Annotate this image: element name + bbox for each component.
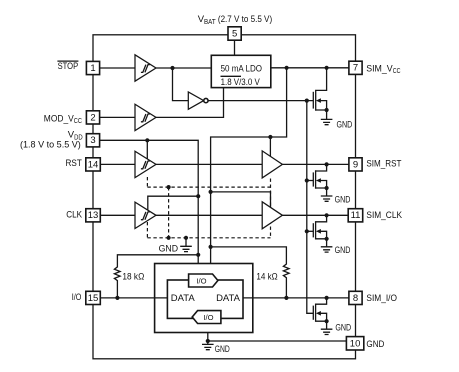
node VDD rail to CLK buffer supply (196, 194, 200, 198)
level shifter dashed boundary bottom (147, 237, 270, 239)
svg-text:14 kΩ: 14 kΩ (256, 271, 278, 281)
pin 1 (86, 61, 99, 74)
svg-text:I/O: I/O (196, 276, 206, 285)
pin 14 (86, 158, 101, 171)
svg-text:GND: GND (335, 195, 351, 205)
pin 11 (348, 209, 363, 222)
level shifter dashed divider (168, 187, 170, 238)
pin 5 (228, 27, 241, 40)
op-amp output buffer SIM_RST (262, 151, 282, 178)
pin 10 (346, 337, 363, 350)
wire LDO output to SIM_Vcc pin (271, 67, 356, 69)
node SIM_Vcc to pull-down FET (325, 66, 329, 70)
svg-text:1.8 V/3.0 V: 1.8 V/3.0 V (221, 77, 260, 87)
ground level shifter (180, 238, 192, 252)
block LDO (211, 55, 270, 87)
block I/O outer box (155, 264, 253, 333)
svg-text:10: 10 (350, 338, 361, 349)
svg-text:1: 1 (90, 63, 95, 74)
wire STOP row (93, 67, 211, 69)
svg-text:DATA: DATA (171, 293, 196, 304)
ground Q1 (321, 119, 333, 124)
ground Q3 (321, 247, 333, 252)
wire VDD supply stub to RST buffer (146, 140, 148, 160)
node gate bus top (305, 99, 309, 103)
wire MOD_Vcc row to LDO bottom (93, 88, 224, 118)
wire SIM_Vcc rail down-left-down to I/O cell (211, 68, 287, 275)
svg-text:15: 15 (88, 293, 99, 304)
svg-text:2: 2 (90, 112, 95, 123)
wire supply stub to RST output buffer (269, 137, 271, 158)
node VDD to RST buffer supply (145, 138, 149, 142)
svg-text:GND: GND (366, 339, 384, 350)
svg-text:SIM_CLK: SIM_CLK (366, 210, 402, 221)
level shifter dashed boundary top (147, 186, 270, 188)
svg-text:(1.8 V to 5.5 V): (1.8 V to 5.5 V) (20, 139, 81, 149)
node SIM_Vcc rail to 14k pull-up (209, 245, 213, 249)
pin 8 (349, 291, 362, 304)
transistor Q2 SIM_RST pull-down (313, 164, 328, 196)
svg-text:CLK: CLK (66, 210, 82, 221)
pin 3 (86, 134, 99, 147)
svg-text:SIM_I/O: SIM_I/O (366, 293, 397, 304)
wire VDD supply stub to CLK buffer (148, 196, 198, 210)
svg-text:DATA: DATA (216, 293, 241, 304)
svg-text:SIM_RST: SIM_RST (366, 158, 401, 169)
node SIM_Vcc rail to RST output buffer supply (268, 135, 272, 139)
wire gate stub RST fet (307, 180, 314, 182)
op-amp buffer CLK schmitt (135, 202, 156, 228)
level shifter dashed boundary left (146, 177, 148, 238)
node GND net junction (206, 339, 210, 343)
resistor R2 14k pull-up wire (211, 247, 290, 298)
wire supply stub to CLK output buffer (211, 192, 271, 208)
wire STOP to inverter (173, 68, 189, 101)
pin 15 (86, 291, 101, 304)
pin 7 (349, 61, 362, 74)
wire gate stub CLK fet (307, 230, 314, 232)
svg-text:GND: GND (159, 244, 179, 254)
wire VBAT pin5 to LDO (234, 40, 236, 55)
label STOP (57, 61, 78, 72)
transistor Q3 SIM_CLK pull-down (313, 215, 328, 247)
node SIM_RST pull-down tap (325, 162, 329, 166)
svg-text:13: 13 (88, 210, 99, 221)
svg-text:STOP: STOP (58, 61, 79, 72)
svg-text:GND: GND (215, 344, 230, 354)
node I/O arrow left-pointing (192, 311, 221, 324)
svg-text:GND: GND (337, 120, 353, 130)
svg-text:50 mA LDO: 50 mA LDO (221, 63, 262, 73)
transistor Q1 SIM_Vcc pull-down (313, 68, 328, 120)
svg-text:RST: RST (66, 158, 82, 169)
wire RST row (93, 163, 356, 165)
svg-text:GND: GND (335, 323, 351, 333)
op-amp buffer MOD_Vcc schmitt (135, 104, 156, 130)
node level shifter ground tap (184, 236, 188, 240)
node LDO output to SIM_Vcc rail (285, 66, 289, 70)
wire I/O row left (93, 297, 167, 299)
node dashed bottom divider junction (167, 236, 171, 240)
svg-text:14: 14 (88, 159, 99, 170)
wire I/O cell ground stub (207, 333, 209, 342)
op-amp buffer RST schmitt (135, 151, 156, 177)
op-amp inverter U2 stop-to-gate (188, 92, 208, 109)
svg-text:I/O: I/O (72, 292, 82, 303)
ground main (202, 341, 214, 350)
level shifter dashed boundary right (270, 179, 272, 238)
op-amp buffer STOP schmitt (135, 55, 156, 81)
wire GND net to pin 10 (208, 340, 355, 342)
node SIM_CLK pull-down tap (325, 213, 329, 217)
svg-text:11: 11 (351, 210, 361, 221)
wire VDD row and VDD rail down to I/O cell (93, 140, 198, 274)
node VDD rail to 18k pull-up (196, 253, 200, 257)
op-amp output buffer SIM_CLK (262, 202, 282, 229)
node gate bus CLK fet (305, 229, 309, 233)
node STOP buffer output junction (170, 66, 174, 70)
svg-text:5: 5 (232, 29, 237, 40)
svg-text:3: 3 (90, 135, 95, 146)
node SIM_I/O pull-down tap (325, 296, 329, 300)
transistor Q4 SIM_I/O pull-down (313, 298, 328, 329)
ground Q4 (321, 329, 333, 334)
svg-text:I/O: I/O (203, 313, 213, 322)
resistor R1 18k pull-up wire (114, 255, 198, 298)
ground Q2 (321, 196, 333, 201)
node I/O 18k tap (115, 296, 119, 300)
wire MOSFET gate bus vertical (307, 101, 314, 314)
node gate bus RST fet (305, 178, 309, 182)
pin 2 (86, 111, 99, 124)
wire CLK row (93, 214, 356, 216)
wire SIM_I/O row right (243, 297, 356, 299)
block I/O inner DATA box (167, 280, 243, 318)
svg-text:18 kΩ: 18 kΩ (122, 271, 144, 281)
IC package outline (93, 35, 356, 359)
svg-text:9: 9 (353, 159, 358, 170)
node SIM_Vcc rail to CLK output buffer supply (209, 190, 213, 194)
node SIM_I/O 14k tap (284, 296, 288, 300)
svg-text:8: 8 (353, 293, 358, 304)
pin 9 (349, 158, 362, 171)
svg-text:7: 7 (353, 63, 358, 74)
svg-text:GND: GND (335, 245, 351, 255)
pin 13 (86, 209, 101, 222)
node dashed top divider junction (167, 185, 171, 189)
wire inverter output to MOSFET gate bus (208, 100, 313, 102)
node I/O arrow right-pointing (189, 274, 218, 287)
